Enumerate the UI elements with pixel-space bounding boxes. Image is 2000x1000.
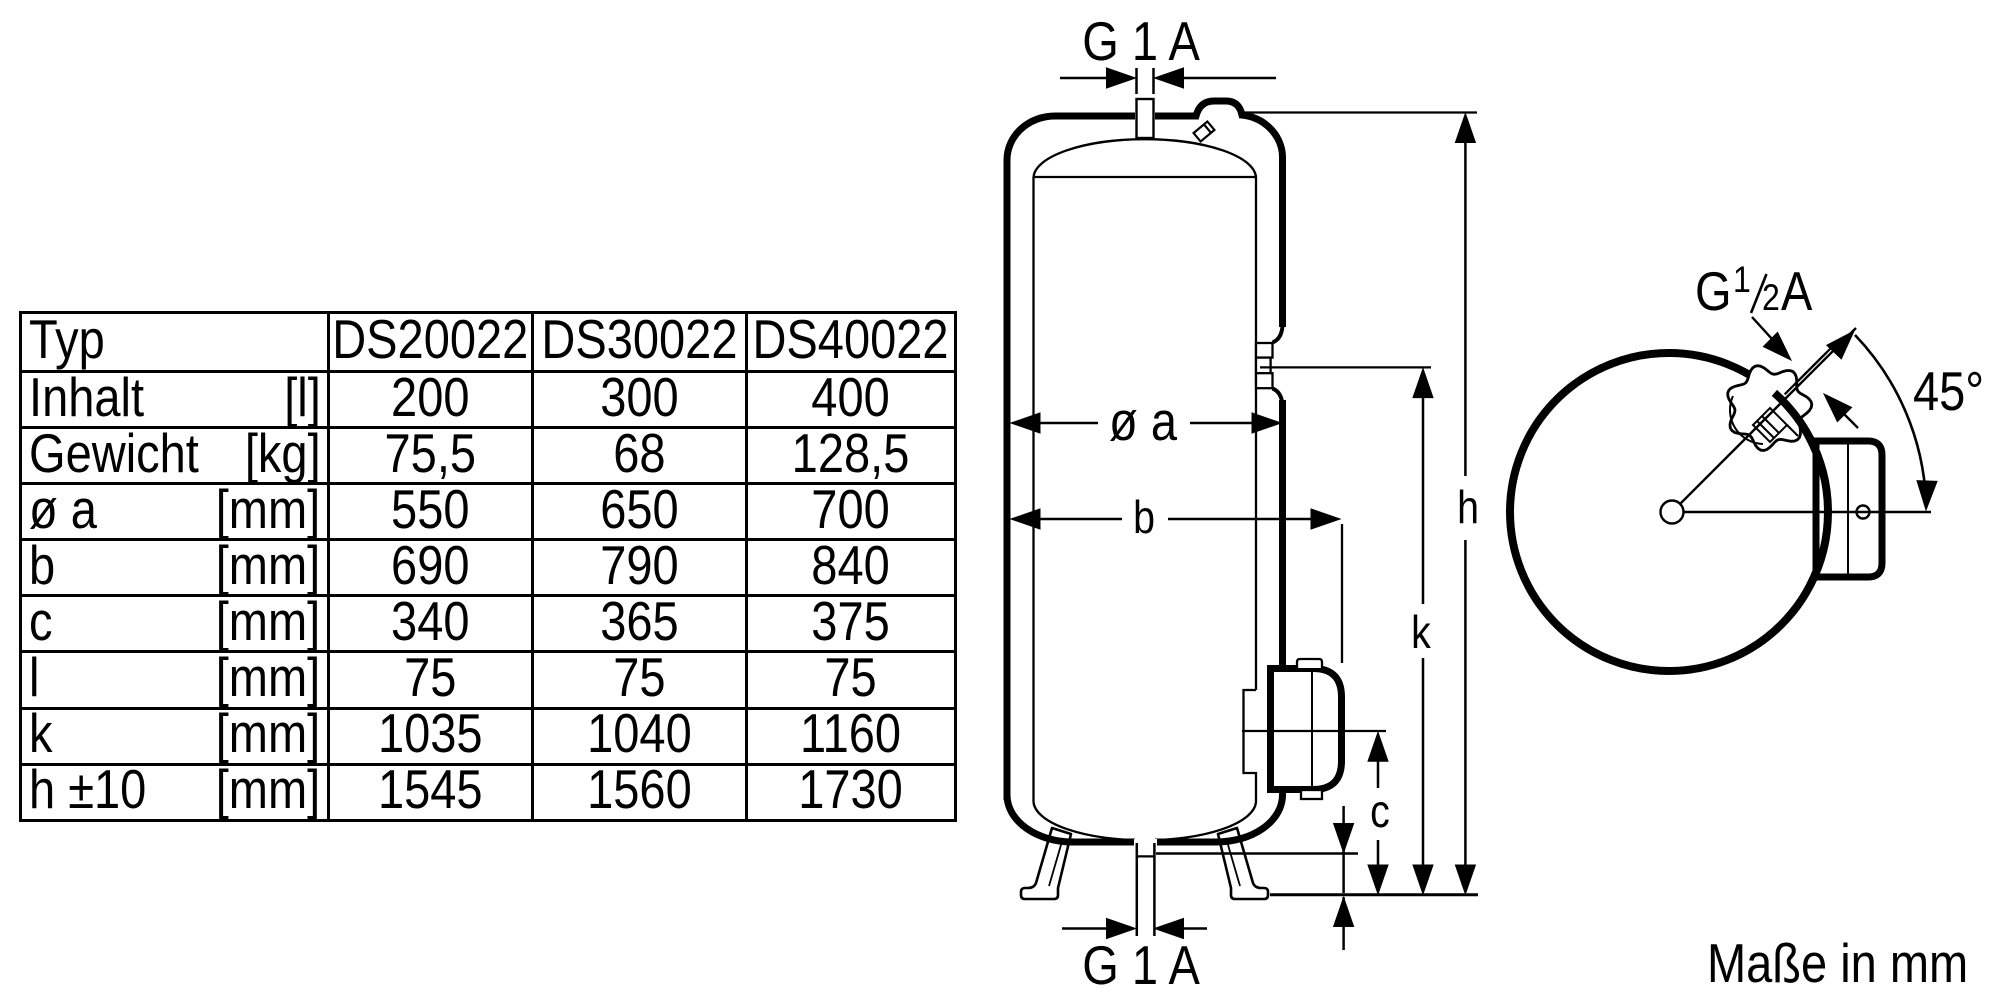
svg-text:A: A [1781, 261, 1813, 322]
svg-text:k: k [1411, 607, 1431, 659]
svg-text:h: h [1457, 482, 1479, 534]
svg-text:ø a: ø a [1109, 391, 1177, 452]
svg-text:1: 1 [1733, 259, 1751, 301]
svg-text:2: 2 [1762, 277, 1780, 319]
svg-text:b: b [1133, 492, 1155, 544]
svg-text:c: c [1370, 786, 1390, 838]
svg-text:G: G [1695, 261, 1732, 322]
svg-text:45°: 45° [1913, 361, 1984, 422]
svg-text:Maße in mm: Maße in mm [1707, 933, 1968, 994]
svg-text:G 1 A: G 1 A [1082, 11, 1200, 72]
svg-text:G 1 A: G 1 A [1082, 935, 1200, 996]
